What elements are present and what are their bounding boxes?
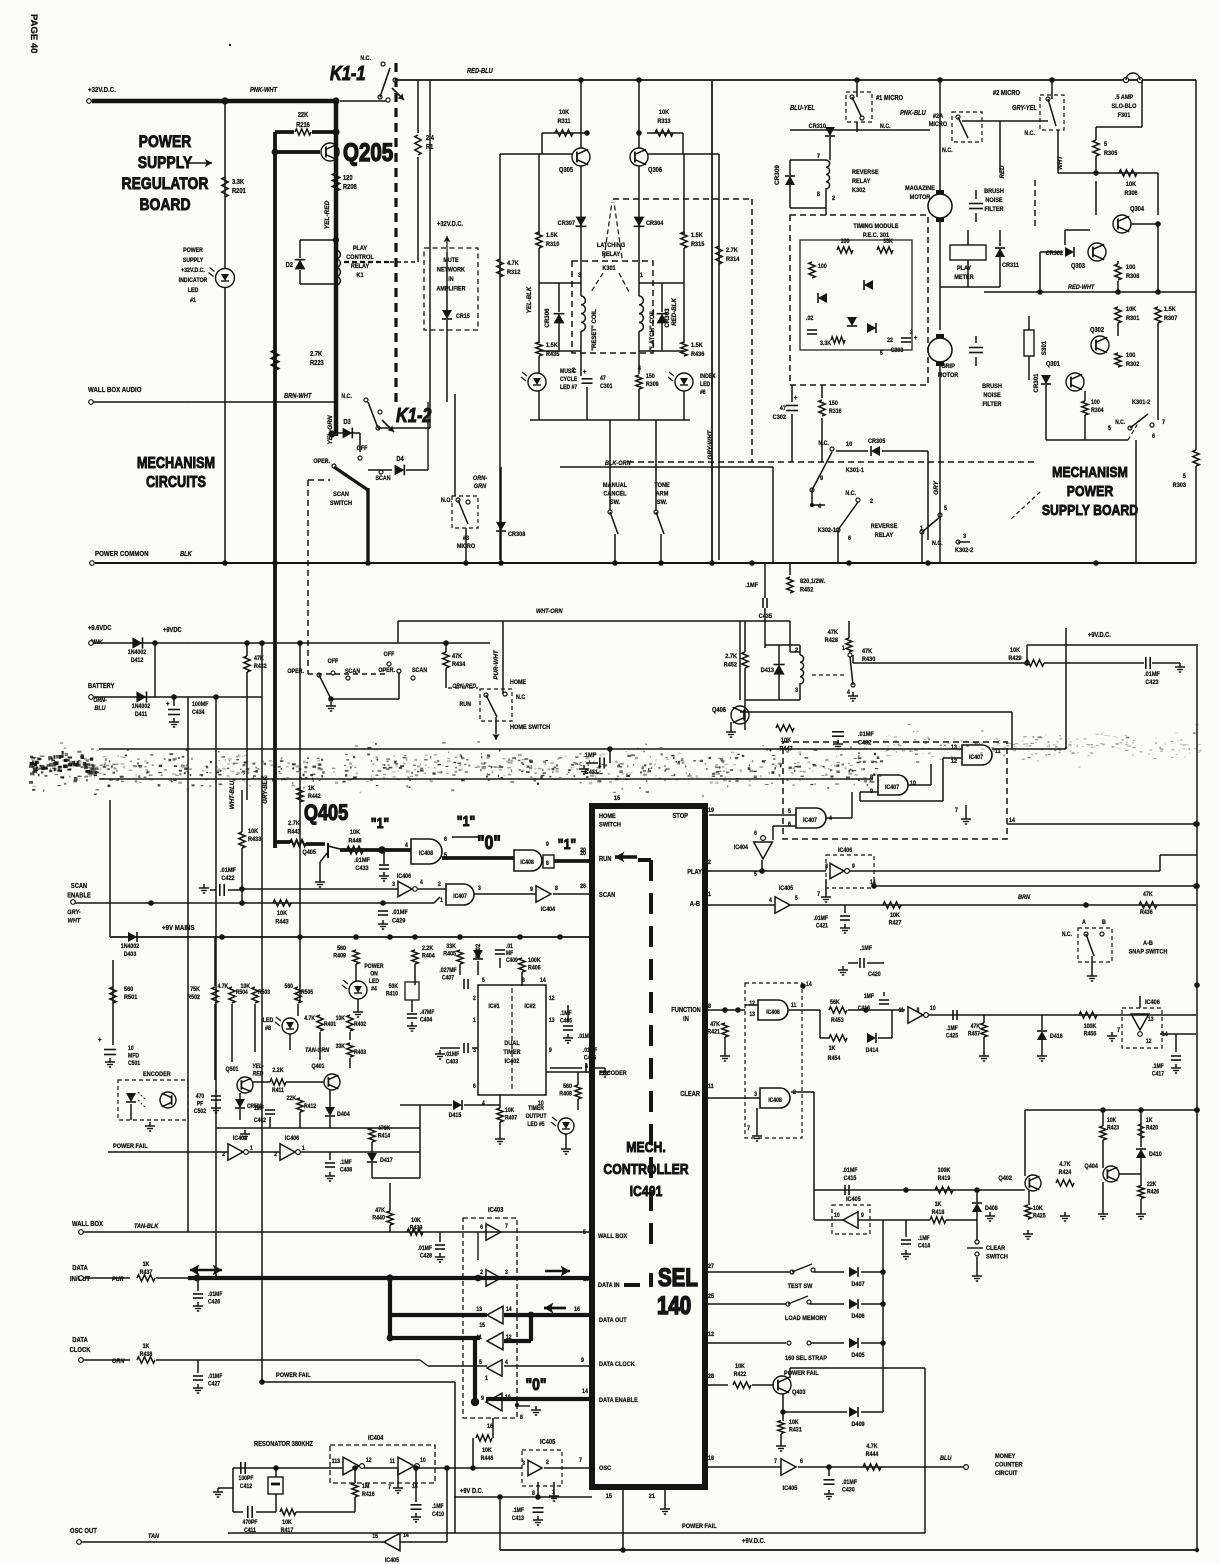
svg-text:.01MF: .01MF — [1144, 671, 1160, 679]
svg-text:2: 2 — [480, 1270, 483, 1277]
svg-text:22K: 22K — [287, 1096, 297, 1103]
svg-text:820,1/2W.: 820,1/2W. — [800, 578, 825, 586]
svg-text:IC405: IC405 — [540, 1439, 556, 1447]
svg-text:6: 6 — [800, 1459, 803, 1466]
svg-text:K302-2: K302-2 — [955, 547, 974, 555]
svg-text:R423: R423 — [1107, 1125, 1119, 1132]
svg-text:IC407: IC407 — [885, 785, 899, 792]
svg-text:MOTOR: MOTOR — [910, 194, 931, 202]
svg-text:D412: D412 — [131, 658, 144, 665]
svg-text:IC#2: IC#2 — [524, 1004, 536, 1011]
svg-text:K1-2: K1-2 — [396, 403, 432, 426]
svg-text:C422: C422 — [221, 875, 235, 883]
svg-text:MECH.: MECH. — [626, 1139, 666, 1155]
svg-text:A-B: A-B — [1143, 940, 1153, 948]
svg-text:CR305: CR305 — [868, 438, 886, 446]
svg-text:160 SEL STRAP: 160 SEL STRAP — [785, 1355, 827, 1363]
svg-text:D403: D403 — [124, 952, 137, 959]
svg-text:BATTERY: BATTERY — [88, 683, 115, 691]
svg-text:1.5K: 1.5K — [546, 342, 558, 350]
svg-text:WALL BOX: WALL BOX — [72, 1221, 104, 1229]
svg-text:C402: C402 — [254, 1118, 266, 1125]
svg-text:BLK: BLK — [180, 551, 192, 559]
svg-text:8: 8 — [520, 1415, 523, 1422]
svg-text:CONTROL: CONTROL — [346, 254, 374, 262]
svg-text:R216: R216 — [296, 122, 310, 130]
svg-text:C428: C428 — [420, 1253, 432, 1260]
svg-text:27: 27 — [708, 1264, 715, 1271]
svg-text:22: 22 — [887, 338, 894, 345]
svg-text:10: 10 — [930, 1006, 936, 1013]
svg-text:9: 9 — [820, 475, 824, 483]
svg-text:14: 14 — [1009, 818, 1016, 825]
svg-text:C423: C423 — [1145, 679, 1159, 687]
svg-text:N.O.: N.O. — [441, 498, 452, 505]
svg-text:MAGAZINE: MAGAZINE — [905, 185, 935, 193]
svg-text:RELAY: RELAY — [351, 263, 370, 271]
svg-text:POWER: POWER — [1067, 483, 1114, 499]
svg-text:GRY-BLK: GRY-BLK — [262, 776, 269, 804]
svg-text:10K: 10K — [559, 109, 570, 117]
svg-text:"1": "1" — [371, 815, 389, 831]
svg-text:R304: R304 — [1091, 408, 1104, 415]
svg-text:CR310: CR310 — [809, 123, 827, 131]
svg-text:IC406: IC406 — [397, 874, 412, 881]
svg-text:RED-BLU: RED-BLU — [467, 68, 493, 76]
svg-text:.1MF: .1MF — [583, 752, 596, 760]
svg-text:REVERSE: REVERSE — [852, 169, 879, 177]
svg-text:ARM: ARM — [656, 490, 669, 498]
svg-text:100: 100 — [1091, 400, 1100, 407]
svg-text:#2A: #2A — [933, 113, 944, 121]
svg-text:100K: 100K — [938, 1168, 951, 1175]
svg-text:+32V.D.C.: +32V.D.C. — [181, 268, 205, 275]
svg-text:FILTER: FILTER — [984, 206, 1004, 214]
svg-text:13: 13 — [749, 1012, 755, 1019]
svg-text:MF: MF — [506, 951, 514, 958]
svg-text:9: 9 — [852, 864, 855, 871]
svg-text:3: 3 — [392, 882, 395, 889]
svg-text:TAN-GRN: TAN-GRN — [305, 1048, 330, 1055]
svg-text:.1MF: .1MF — [560, 1011, 572, 1018]
svg-text:R434: R434 — [452, 661, 466, 669]
svg-text:SEL: SEL — [658, 1263, 698, 1291]
svg-text:10K: 10K — [1126, 181, 1137, 189]
svg-text:10K: 10K — [277, 910, 288, 918]
svg-text:CR303: CR303 — [664, 308, 671, 328]
svg-text:GRY-WHT: GRY-WHT — [707, 429, 714, 459]
svg-text:12: 12 — [708, 1332, 715, 1339]
svg-text:2: 2 — [546, 1460, 549, 1467]
svg-text:SNAP SWITCH: SNAP SWITCH — [1129, 948, 1168, 956]
svg-text:6: 6 — [480, 1225, 483, 1232]
svg-text:Q501: Q501 — [225, 1067, 239, 1074]
svg-text:3: 3 — [910, 330, 913, 337]
svg-text:TONE: TONE — [654, 482, 669, 490]
svg-text:R435: R435 — [546, 351, 560, 359]
svg-text:1K: 1K — [1146, 1118, 1153, 1125]
svg-text:IC404: IC404 — [734, 845, 749, 852]
svg-text:RESONATOR 380KHZ: RESONATOR 380KHZ — [254, 1441, 313, 1449]
svg-text:IC408: IC408 — [768, 1098, 782, 1105]
svg-text:Q205: Q205 — [343, 138, 393, 166]
svg-text:R411: R411 — [272, 1088, 284, 1095]
svg-text:MOTOR: MOTOR — [938, 372, 959, 380]
svg-text:R440: R440 — [372, 1215, 385, 1222]
svg-text:CR306: CR306 — [544, 308, 551, 328]
svg-text:RED: RED — [253, 1071, 264, 1078]
svg-text:K301-2: K301-2 — [1132, 399, 1151, 407]
svg-text:20: 20 — [580, 848, 587, 855]
svg-text:C427: C427 — [208, 1381, 220, 1388]
svg-text:10: 10 — [846, 441, 853, 449]
svg-text:PNK-BLU: PNK-BLU — [900, 110, 926, 118]
svg-text:R421: R421 — [707, 1029, 720, 1036]
svg-text:3.3K: 3.3K — [232, 179, 244, 187]
svg-text:C414: C414 — [918, 1243, 931, 1250]
svg-text:WALL BOX AUDIO: WALL BOX AUDIO — [88, 387, 142, 395]
svg-text:GRIP: GRIP — [941, 363, 955, 371]
svg-text:10: 10 — [128, 1046, 134, 1053]
svg-text:POWER FAIL: POWER FAIL — [276, 1372, 311, 1380]
svg-text:2: 2 — [870, 498, 874, 506]
svg-text:560: 560 — [285, 984, 293, 991]
svg-text:DATA IN: DATA IN — [598, 1282, 620, 1290]
svg-text:13: 13 — [476, 1307, 482, 1314]
svg-text:1: 1 — [250, 1146, 253, 1153]
svg-text:.1MF: .1MF — [432, 1504, 444, 1511]
svg-text:BRUSH: BRUSH — [982, 383, 1002, 391]
svg-text:R410: R410 — [386, 991, 398, 998]
svg-text:.01MF: .01MF — [842, 1168, 857, 1175]
svg-text:NOISE: NOISE — [985, 197, 1002, 205]
svg-text:R425: R425 — [1033, 1213, 1046, 1220]
svg-text:1.5K: 1.5K — [691, 232, 703, 240]
svg-text:PUR-WHT: PUR-WHT — [493, 649, 500, 679]
svg-text:470K: 470K — [378, 1126, 391, 1133]
svg-text:"LATCH" COIL: "LATCH" COIL — [650, 309, 656, 351]
svg-text:C432: C432 — [858, 739, 872, 747]
svg-text:MECHANISM: MECHANISM — [137, 455, 215, 472]
svg-text:PAGE 40: PAGE 40 — [28, 14, 39, 53]
svg-text:4.7K: 4.7K — [507, 260, 519, 268]
svg-text:C303: C303 — [891, 348, 904, 355]
svg-text:STOP: STOP — [672, 813, 688, 821]
svg-text:POWER: POWER — [139, 133, 192, 152]
svg-text:C430: C430 — [842, 1487, 855, 1494]
svg-text:14: 14 — [412, 1484, 418, 1491]
svg-text:ORN: ORN — [112, 1358, 125, 1366]
svg-text:BRN-WHT: BRN-WHT — [284, 393, 312, 401]
svg-text:.1MF: .1MF — [340, 1160, 352, 1167]
svg-text:4: 4 — [638, 365, 642, 373]
svg-text:26: 26 — [580, 884, 587, 891]
svg-text:C420: C420 — [868, 972, 881, 979]
svg-text:C417: C417 — [1152, 1071, 1164, 1078]
svg-text:N.C.: N.C. — [932, 541, 943, 548]
svg-text:#6: #6 — [700, 390, 706, 397]
svg-text:OSC OUT: OSC OUT — [70, 1528, 97, 1536]
svg-text:R424: R424 — [1059, 1170, 1072, 1177]
svg-text:+: + — [914, 335, 918, 343]
svg-text:Q403: Q403 — [792, 1389, 806, 1397]
svg-text:15: 15 — [372, 1534, 378, 1541]
svg-text:5: 5 — [754, 872, 757, 879]
svg-text:CR307: CR307 — [558, 220, 576, 228]
svg-text:CR15: CR15 — [456, 314, 470, 321]
svg-text:3: 3 — [578, 272, 582, 280]
svg-text:IC407: IC407 — [969, 755, 983, 762]
svg-text:1N4002: 1N4002 — [128, 650, 147, 657]
svg-text:RED-WHT: RED-WHT — [1068, 284, 1095, 292]
svg-text:C412: C412 — [240, 1484, 252, 1491]
svg-text:28: 28 — [708, 1374, 715, 1381]
svg-text:5: 5 — [479, 1360, 482, 1367]
svg-text:R408: R408 — [559, 1091, 572, 1098]
svg-text:1: 1 — [440, 898, 443, 905]
svg-text:+9V MAINS: +9V MAINS — [162, 925, 195, 933]
svg-text:IC406: IC406 — [838, 848, 853, 855]
svg-text:R312: R312 — [507, 269, 521, 277]
svg-text:.01MF: .01MF — [220, 867, 236, 875]
svg-text:R314: R314 — [726, 256, 740, 264]
svg-text:8: 8 — [522, 978, 525, 985]
svg-text:MECHANISM: MECHANISM — [1052, 464, 1128, 480]
svg-text:5: 5 — [944, 505, 948, 513]
svg-text:R208: R208 — [343, 184, 357, 192]
svg-text:+9VDC: +9VDC — [163, 627, 182, 635]
svg-text:LATCHING: LATCHING — [597, 242, 625, 250]
svg-text:REVERSE: REVERSE — [871, 523, 898, 531]
svg-text:OPER.: OPER. — [378, 668, 395, 675]
svg-text:MONEY: MONEY — [995, 1453, 1016, 1461]
svg-text:7: 7 — [747, 1126, 750, 1133]
svg-text:DATA ENABLE: DATA ENABLE — [599, 1397, 638, 1405]
svg-text:.02: .02 — [806, 316, 814, 323]
svg-text:SCAN: SCAN — [599, 892, 616, 900]
svg-text:2: 2 — [274, 1152, 277, 1159]
svg-text:"1": "1" — [457, 813, 475, 829]
svg-text:14: 14 — [582, 1389, 589, 1396]
svg-text:3: 3 — [963, 533, 967, 541]
svg-text:N.C.: N.C. — [818, 441, 829, 448]
svg-text:K301: K301 — [602, 265, 616, 273]
svg-text:C409: C409 — [506, 958, 518, 965]
svg-text:R316: R316 — [829, 409, 842, 416]
svg-text:1K: 1K — [829, 1046, 836, 1053]
svg-text:9: 9 — [530, 887, 533, 894]
svg-text:R422: R422 — [734, 1372, 747, 1379]
svg-text:1MF: 1MF — [864, 994, 875, 1001]
svg-text:R310: R310 — [546, 241, 560, 249]
svg-text:R428: R428 — [825, 637, 839, 645]
svg-text:A-B: A-B — [690, 901, 701, 909]
svg-text:INDEX: INDEX — [700, 374, 716, 381]
svg-text:GRY: GRY — [933, 480, 940, 494]
svg-text:56K: 56K — [830, 1000, 840, 1007]
svg-text:15: 15 — [614, 795, 621, 803]
svg-text:3: 3 — [754, 1092, 757, 1099]
svg-text:D3: D3 — [343, 419, 351, 427]
svg-text:5: 5 — [482, 978, 485, 985]
svg-text:140: 140 — [657, 1291, 691, 1319]
svg-text:22K: 22K — [1147, 1182, 1157, 1189]
svg-text:TIMING MODULE: TIMING MODULE — [853, 223, 898, 231]
svg-text:D4: D4 — [396, 456, 404, 464]
svg-text:FUNCTION: FUNCTION — [671, 1007, 701, 1015]
svg-text:S301: S301 — [1041, 340, 1048, 355]
svg-text:R446: R446 — [481, 1456, 494, 1463]
svg-text:Q405: Q405 — [304, 801, 348, 825]
svg-text:10: 10 — [583, 1277, 590, 1284]
svg-text:9: 9 — [549, 1048, 552, 1055]
svg-text:BLU: BLU — [940, 1455, 952, 1463]
svg-text:IC405: IC405 — [846, 1196, 861, 1204]
svg-text:IC#1: IC#1 — [488, 1004, 500, 1011]
svg-text:2.7K: 2.7K — [288, 820, 300, 828]
svg-text:D402: D402 — [476, 943, 482, 958]
svg-text:FILTER: FILTER — [982, 401, 1002, 409]
svg-text:47K: 47K — [828, 629, 839, 637]
svg-text:Q301: Q301 — [1046, 361, 1060, 369]
svg-text:R429: R429 — [1008, 655, 1022, 663]
svg-text:11: 11 — [390, 1459, 395, 1466]
svg-text:2: 2 — [438, 882, 441, 889]
svg-text:LED: LED — [188, 288, 198, 295]
svg-text:R403: R403 — [354, 1050, 366, 1057]
svg-text:2.2K: 2.2K — [272, 1068, 284, 1075]
svg-text:Q305: Q305 — [559, 167, 573, 175]
svg-text:ENCODER: ENCODER — [143, 1071, 171, 1079]
svg-text:1: 1 — [302, 1146, 305, 1153]
svg-text:R504: R504 — [236, 990, 249, 997]
svg-text:3: 3 — [478, 886, 481, 893]
svg-text:12: 12 — [951, 759, 958, 766]
svg-text:.01: .01 — [506, 944, 513, 951]
svg-text:SWITCH: SWITCH — [330, 500, 352, 508]
svg-text:HOME SWITCH: HOME SWITCH — [510, 724, 551, 732]
svg-text:C403: C403 — [446, 1059, 458, 1066]
svg-text:N.C.: N.C. — [341, 394, 352, 401]
svg-text:POWER FAIL: POWER FAIL — [682, 1523, 717, 1531]
svg-text:4.7K: 4.7K — [866, 1444, 878, 1451]
svg-text:ORN-: ORN- — [93, 698, 107, 705]
svg-text:2.2K: 2.2K — [422, 946, 434, 953]
svg-text:K1: K1 — [356, 272, 364, 280]
svg-text:A: A — [1082, 920, 1086, 927]
svg-text:LED #7: LED #7 — [560, 385, 577, 392]
svg-text:DATA OUT: DATA OUT — [599, 1317, 627, 1325]
svg-text:LED: LED — [263, 1018, 274, 1025]
svg-text:2.7K: 2.7K — [310, 351, 322, 359]
svg-text:R407: R407 — [505, 1115, 517, 1122]
svg-text:.027MF: .027MF — [439, 968, 457, 975]
svg-text:SWITCH: SWITCH — [599, 821, 621, 829]
svg-text:R448: R448 — [348, 837, 362, 845]
svg-text:"0": "0" — [526, 1376, 547, 1395]
svg-text:PLAY: PLAY — [353, 245, 368, 253]
svg-text:CR301: CR301 — [1033, 373, 1040, 393]
svg-text:113: 113 — [332, 1459, 340, 1466]
svg-text:INDICATOR: INDICATOR — [179, 278, 208, 285]
svg-text:NETWORK: NETWORK — [437, 267, 465, 274]
svg-text:R305: R305 — [1104, 150, 1118, 158]
svg-text:2.7K: 2.7K — [726, 247, 738, 255]
svg-text:C301: C301 — [600, 384, 613, 391]
svg-text:1MF: 1MF — [254, 1106, 265, 1113]
svg-text:D415: D415 — [449, 1113, 462, 1120]
svg-text:DATA: DATA — [72, 1265, 88, 1273]
svg-text:560: 560 — [337, 946, 347, 953]
svg-text:SWITCH: SWITCH — [986, 1253, 1008, 1261]
svg-text:R456: R456 — [1084, 1031, 1097, 1038]
svg-text:MANUAL: MANUAL — [603, 482, 627, 490]
svg-text:RELAY: RELAY — [602, 251, 621, 259]
svg-text:.1MF: .1MF — [745, 582, 758, 590]
svg-text:10K: 10K — [1033, 1206, 1043, 1213]
svg-text:R436: R436 — [691, 351, 705, 359]
svg-text:R452: R452 — [800, 586, 814, 594]
svg-text:10K: 10K — [350, 829, 361, 837]
svg-text:R404: R404 — [422, 953, 435, 960]
svg-text:1.5K: 1.5K — [546, 232, 558, 240]
svg-text:ENABLE: ENABLE — [67, 892, 91, 900]
svg-text:CR308: CR308 — [508, 531, 526, 539]
svg-text:N.C.: N.C. — [845, 491, 856, 498]
svg-text:10K: 10K — [659, 109, 670, 117]
svg-text:AMPLIFIER: AMPLIFIER — [436, 286, 466, 293]
svg-text:#8: #8 — [265, 1026, 272, 1033]
svg-text:14: 14 — [806, 982, 812, 989]
svg-text:R427: R427 — [889, 920, 902, 927]
svg-text:R439: R439 — [410, 1225, 423, 1232]
svg-text:DATA: DATA — [72, 1337, 88, 1345]
svg-text:PF: PF — [197, 1101, 204, 1108]
svg-text:100PF: 100PF — [239, 1476, 254, 1483]
svg-text:+9.6VDC: +9.6VDC — [88, 625, 112, 633]
svg-text:+9V.D.C.: +9V.D.C. — [742, 1538, 766, 1546]
svg-text:C405: C405 — [560, 1018, 572, 1025]
svg-text:N.C.: N.C. — [880, 124, 891, 131]
svg-text:33K: 33K — [446, 944, 456, 951]
svg-text:1: 1 — [485, 1376, 488, 1383]
svg-text:7: 7 — [1162, 419, 1166, 427]
svg-text:Q401: Q401 — [311, 1064, 325, 1071]
svg-text:K301-1: K301-1 — [846, 467, 865, 475]
svg-text:2: 2 — [795, 647, 799, 655]
svg-text:10: 10 — [834, 1213, 840, 1220]
svg-text:BRUSH: BRUSH — [984, 188, 1004, 196]
svg-text:IC405: IC405 — [385, 1558, 400, 1564]
svg-text:C407: C407 — [442, 975, 454, 982]
svg-text:D417: D417 — [380, 1158, 393, 1165]
svg-text:MFD: MFD — [128, 1053, 139, 1060]
svg-text:GRY-: GRY- — [67, 909, 80, 917]
svg-text:100: 100 — [1126, 264, 1136, 272]
svg-text:9: 9 — [481, 1396, 484, 1403]
svg-text:6: 6 — [1152, 433, 1156, 441]
svg-text:N.C: N.C — [516, 695, 526, 702]
svg-text:D405: D405 — [851, 1352, 865, 1360]
svg-text:R505: R505 — [301, 990, 313, 997]
svg-text:.1MF: .1MF — [512, 1508, 524, 1515]
svg-text:K302-1: K302-1 — [818, 527, 837, 535]
svg-text:33K: 33K — [336, 1044, 346, 1051]
svg-text:2: 2 — [832, 195, 836, 203]
svg-text:N.C.: N.C. — [942, 148, 953, 155]
svg-text:D414: D414 — [866, 1048, 879, 1055]
svg-text:OUTPUT: OUTPUT — [526, 1114, 547, 1121]
